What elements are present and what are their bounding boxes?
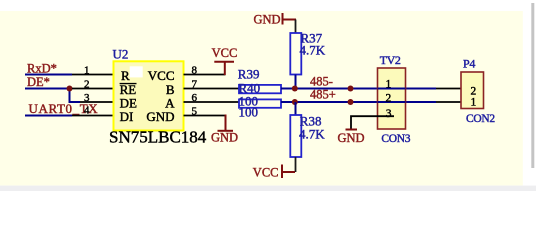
svg-text:485-: 485-: [310, 75, 333, 89]
wire R37 to 485-: [295, 75, 297, 90]
svg-text:GND: GND: [254, 13, 281, 27]
svg-text:7: 7: [192, 79, 198, 91]
svg-text:1: 1: [471, 97, 477, 109]
wire R38 to VCC: [295, 157, 297, 172]
bottom strip: [0, 186, 536, 191]
svg-text:8: 8: [192, 65, 198, 77]
svg-text:485+: 485+: [310, 88, 336, 102]
wire 485- crossing TV2: [378, 88, 406, 90]
junction R37/485-: [292, 86, 298, 92]
U2 pin 7 line to R39: [184, 88, 240, 90]
white artifact box: [130, 66, 143, 77]
svg-text:1: 1: [386, 79, 392, 91]
junction TV2 pin2: [348, 99, 354, 105]
wire DE to pin2: [25, 88, 72, 90]
ground at TV2 pin3: [346, 129, 358, 131]
wire 485-: [281, 88, 436, 90]
svg-text:2: 2: [84, 79, 90, 91]
svg-text:5: 5: [192, 106, 198, 118]
sheet background: [0, 11, 523, 186]
svg-text:CON3: CON3: [381, 133, 410, 145]
svg-text:GND: GND: [338, 131, 365, 145]
svg-text:VCC: VCC: [253, 165, 279, 179]
svg-text:RxD*: RxD*: [27, 62, 57, 76]
svg-text:R39: R39: [238, 67, 260, 82]
IC U2 body: [114, 61, 184, 130]
junction R38/485+: [292, 99, 298, 105]
ground below pin5: [225, 115, 227, 131]
U2 pin 5 line: [184, 115, 226, 117]
U2 pin 6 line to R40: [184, 101, 240, 103]
wire 485+: [281, 101, 436, 103]
resistor R37: [290, 33, 301, 75]
svg-text:SN75LBC184: SN75LBC184: [109, 127, 207, 146]
svg-text:VCC: VCC: [212, 46, 238, 60]
U2 pin 1 line: [72, 74, 113, 76]
svg-text:DE*: DE*: [27, 75, 50, 89]
P4 pin 2 line: [436, 88, 461, 90]
U2 pin 8 line: [184, 74, 226, 76]
svg-text:100: 100: [239, 104, 259, 119]
wire branch DE to pin3: [70, 89, 81, 103]
svg-text:2: 2: [386, 93, 392, 105]
U2 pin 3 line: [80, 101, 113, 103]
svg-text:4: 4: [84, 105, 90, 117]
resistor R38: [290, 115, 301, 157]
svg-text:6: 6: [192, 92, 198, 104]
wire 485+ to R38: [295, 102, 297, 115]
svg-text:4.7K: 4.7K: [300, 43, 326, 58]
svg-text:GND: GND: [211, 131, 238, 145]
scrollbar: [531, 3, 534, 168]
svg-text:P4: P4: [463, 57, 475, 71]
U2 pin 2 line: [72, 88, 113, 90]
wire 485+ crossing TV2: [378, 101, 406, 103]
svg-text:1: 1: [84, 65, 90, 77]
svg-text:U2: U2: [113, 47, 129, 62]
junction TV2 pin1: [348, 86, 354, 92]
junction dot on DE* branch: [67, 86, 73, 92]
svg-text:CON2: CON2: [466, 113, 495, 125]
svg-text:3: 3: [386, 108, 392, 120]
TV2 pin 3 line: [351, 116, 394, 129]
svg-text:DI: DI: [120, 109, 134, 124]
svg-text:GND: GND: [146, 109, 174, 124]
svg-text:TV2: TV2: [380, 53, 401, 67]
connector P4 body: [461, 72, 484, 109]
connector TV2 body: [378, 68, 406, 129]
svg-text:3: 3: [84, 92, 90, 104]
P4 pin 1 line: [436, 101, 461, 103]
U2 pin 4 line: [72, 115, 113, 117]
wire UART0_TX to pin4: [25, 115, 72, 117]
wire GND to R37: [295, 20, 297, 34]
wire RxD to pin1: [25, 74, 72, 76]
svg-text:4.7K: 4.7K: [299, 127, 325, 142]
